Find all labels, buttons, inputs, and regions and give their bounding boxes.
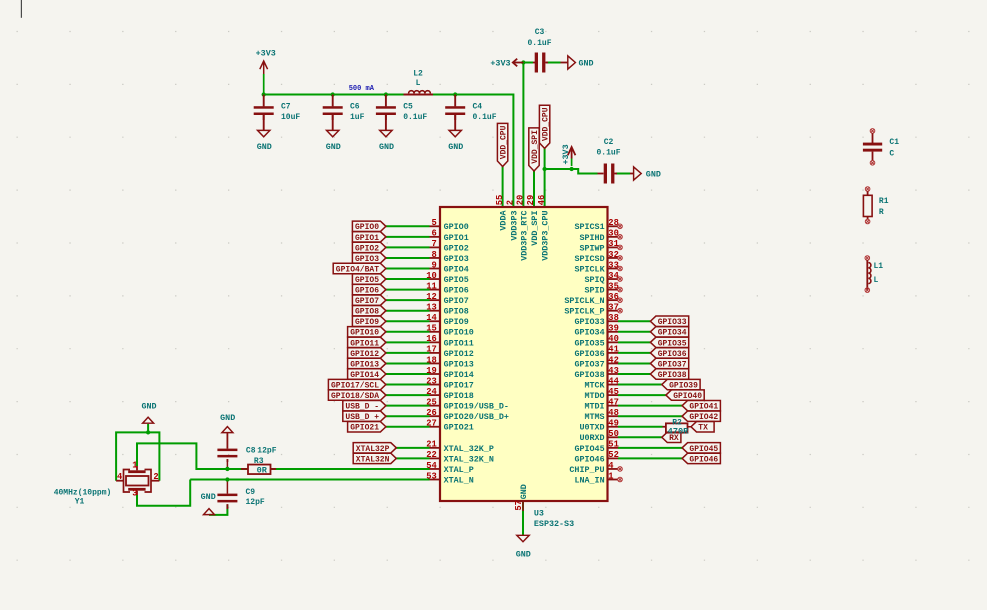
svg-text:9: 9 — [432, 260, 437, 270]
svg-text:57: 57 — [514, 500, 524, 511]
wire right row pin 16 — [618, 394, 666, 396]
capacitor C5 — [385, 95, 387, 107]
svg-text:0.1uF: 0.1uF — [473, 113, 497, 122]
svg-text:6: 6 — [432, 229, 437, 239]
svg-text:0.1uF: 0.1uF — [596, 149, 620, 158]
capacitor C4 — [454, 95, 456, 107]
wire crystal pin1 to XTAL_P — [137, 443, 248, 469]
svg-text:L: L — [416, 79, 421, 88]
svg-text:GPIO9: GPIO9 — [444, 317, 469, 327]
gnd flag at C9 — [204, 509, 215, 515]
svg-text:27: 27 — [426, 419, 437, 429]
wire GPIO12 — [386, 352, 430, 354]
wire GPIO3 — [386, 257, 430, 259]
svg-text:+3V3: +3V3 — [561, 144, 571, 164]
svg-text:GPIO1: GPIO1 — [444, 233, 469, 243]
svg-text:SPID: SPID — [584, 286, 604, 296]
svg-text:GPIO39: GPIO39 — [669, 381, 698, 390]
svg-text:17: 17 — [426, 345, 437, 355]
wire U0TXD to R2 — [618, 426, 663, 428]
svg-text:XTAL_N: XTAL_N — [444, 475, 474, 485]
svg-text:GPIO38: GPIO38 — [658, 371, 687, 380]
svg-text:0R: 0R — [257, 466, 268, 476]
wire GPIO17/SCL — [386, 384, 430, 386]
net label VDD_SPI (pin 29) — [529, 128, 539, 171]
junction C7/rail — [262, 92, 266, 96]
junction C4/rail — [453, 92, 457, 96]
U3 bottom pin 57 GND — [522, 501, 524, 511]
svg-text:46: 46 — [537, 195, 547, 206]
svg-text:C3: C3 — [535, 28, 545, 37]
svg-text:XTAL_32K_N: XTAL_32K_N — [444, 454, 494, 464]
wire +3V3 node to C2 — [572, 169, 598, 174]
wire XTAL_N (crystal to pin 53) — [190, 479, 429, 481]
svg-text:5: 5 — [432, 218, 437, 228]
svg-text:TX: TX — [698, 424, 708, 433]
svg-text:40: 40 — [608, 334, 619, 344]
net label VDD_CPU (pin 46) — [539, 105, 549, 148]
svg-text:U3: U3 — [534, 509, 544, 519]
svg-text:C: C — [889, 149, 894, 158]
net label GPIO37 — [650, 358, 688, 368]
net label GPIO42 — [682, 411, 720, 421]
svg-text:23: 23 — [426, 376, 437, 386]
svg-text:GPIO46: GPIO46 — [574, 454, 604, 464]
svg-text:GPIO7: GPIO7 — [355, 297, 379, 306]
wire GPIO10 — [386, 331, 430, 333]
gnd flag at C2 — [630, 173, 634, 175]
gnd flag at C3 — [561, 62, 568, 64]
wire right row pin 14 — [618, 373, 650, 375]
wire C3 left (+3V3 node) — [523, 62, 533, 64]
wire right row pin 21 — [618, 447, 682, 449]
svg-text:SPICSD: SPICSD — [574, 254, 604, 264]
net label GPIO38 — [650, 369, 688, 379]
svg-text:1uF: 1uF — [350, 113, 365, 122]
svg-text:SPICLK_P: SPICLK_P — [564, 307, 604, 317]
svg-text:GPIO7: GPIO7 — [444, 296, 469, 306]
wire IC GND to flag — [522, 501, 524, 535]
svg-text:C4: C4 — [473, 103, 483, 112]
svg-text:0.1uF: 0.1uF — [527, 39, 551, 48]
svg-text:GPIO10: GPIO10 — [444, 328, 474, 338]
svg-text:42: 42 — [608, 355, 619, 365]
junction crystal GND — [146, 430, 150, 434]
gnd flag above C8 — [226, 433, 228, 449]
svg-text:C7: C7 — [281, 103, 291, 112]
svg-text:12pF: 12pF — [246, 498, 265, 507]
wire crystal GND loop — [116, 432, 159, 480]
net label GPIO18/SDA — [328, 390, 386, 400]
U3 left pins — [430, 226, 441, 479]
svg-text:GPIO3: GPIO3 — [444, 254, 469, 264]
wire GPIO11 — [386, 341, 430, 343]
gnd flag under cap x=455.2 — [454, 115, 456, 131]
svg-text:GND: GND — [448, 142, 463, 152]
resistor R2 470R — [663, 426, 666, 428]
net label GPIO36 — [650, 348, 688, 358]
wire GPIO13 — [386, 362, 430, 364]
wire C9 bottom to GND — [209, 505, 227, 515]
svg-text:10: 10 — [426, 271, 437, 281]
net label GPIO46 — [682, 453, 720, 463]
junction C6/rail — [331, 92, 335, 96]
svg-text:GPIO20/USB_D+: GPIO20/USB_D+ — [444, 412, 509, 422]
wire GPIO6 — [386, 289, 430, 291]
net label GPIO13 — [348, 358, 386, 368]
power +3V3 at C2 — [571, 148, 573, 159]
svg-text:38: 38 — [608, 313, 619, 323]
junction VDD_CPU/C2 branch — [542, 167, 546, 171]
wire VDD3P3_RTC vertical (pin 20 to C3 node) — [522, 63, 524, 208]
capacitor C7 — [263, 95, 265, 107]
svg-text:44: 44 — [608, 376, 619, 386]
svg-text:GPIO3: GPIO3 — [355, 255, 379, 264]
net label GPIO45 — [682, 443, 720, 453]
net label GPIO21 — [348, 422, 386, 432]
svg-text:GPIO2: GPIO2 — [444, 243, 469, 253]
svg-text:VDD_CPU: VDD_CPU — [500, 125, 509, 159]
IC U3 ESP32-S3 — [440, 207, 608, 501]
svg-text:GPIO8: GPIO8 — [444, 307, 469, 317]
svg-text:8: 8 — [432, 250, 437, 260]
U3 right pin numbers — [608, 218, 619, 481]
svg-text:45: 45 — [608, 387, 619, 397]
svg-text:GPIO2: GPIO2 — [355, 244, 379, 253]
svg-text:GPIO6: GPIO6 — [355, 287, 379, 296]
svg-text:GND: GND — [519, 484, 529, 499]
gnd flag crystal top — [143, 417, 154, 423]
wire C9 top node — [226, 480, 228, 494]
resistor R1 (spare) — [865, 187, 870, 192]
wire GPIO21 — [386, 426, 430, 428]
svg-text:29: 29 — [526, 195, 536, 206]
svg-text:16: 16 — [426, 334, 437, 344]
svg-text:GPIO33: GPIO33 — [658, 318, 687, 327]
net label GPIO6 — [352, 284, 386, 294]
svg-text:SPICLK: SPICLK — [574, 264, 605, 274]
svg-text:L1: L1 — [874, 262, 884, 271]
svg-text:GND: GND — [516, 550, 531, 560]
svg-text:GPIO38: GPIO38 — [574, 370, 604, 380]
svg-text:GPIO42: GPIO42 — [689, 413, 718, 422]
net label XTAL32P — [353, 443, 396, 453]
svg-text:L2: L2 — [413, 70, 423, 79]
svg-text:R1: R1 — [879, 197, 889, 206]
wire USB_D - — [386, 405, 430, 407]
svg-text:GPIO17: GPIO17 — [444, 380, 474, 390]
net label GPIO2 — [352, 242, 386, 252]
wire GPIO18/SDA — [386, 394, 430, 396]
svg-text:Y1: Y1 — [75, 497, 85, 506]
wire R2 to TX label — [688, 426, 692, 428]
svg-text:GND: GND — [326, 142, 341, 152]
svg-text:R: R — [879, 208, 884, 217]
svg-text:XTAL32P: XTAL32P — [356, 445, 390, 454]
net label GPIO9 — [352, 316, 386, 326]
svg-text:C6: C6 — [350, 103, 360, 112]
svg-text:40MHz(10ppm): 40MHz(10ppm) — [54, 489, 112, 498]
svg-text:VDD3P3_RTC: VDD3P3_RTC — [519, 211, 529, 261]
junction C5/rail — [384, 92, 388, 96]
svg-text:10uF: 10uF — [281, 113, 300, 122]
net label XTAL32N — [353, 453, 396, 463]
svg-text:VDD_SPI: VDD_SPI — [530, 211, 540, 246]
svg-text:XTAL_P: XTAL_P — [444, 465, 474, 475]
wire C2 to GND flag — [616, 173, 630, 175]
svg-text:GPIO37: GPIO37 — [658, 360, 687, 369]
svg-text:GPIO12: GPIO12 — [444, 349, 474, 359]
svg-text:GND: GND — [257, 142, 272, 152]
svg-text:53: 53 — [426, 471, 437, 481]
svg-text:7: 7 — [432, 239, 437, 249]
svg-text:GPIO1: GPIO1 — [355, 234, 379, 243]
net label GPIO40 — [666, 390, 704, 400]
svg-text:15: 15 — [426, 324, 437, 334]
sheet border remnant — [20, 0, 22, 18]
net label GPIO14 — [348, 369, 386, 379]
svg-text:MTMS: MTMS — [584, 412, 604, 422]
svg-text:SPIQ: SPIQ — [584, 275, 604, 285]
svg-text:1: 1 — [132, 460, 137, 470]
junction C3 node — [521, 60, 525, 64]
svg-text:ESP32-S3: ESP32-S3 — [534, 519, 574, 529]
svg-text:13: 13 — [426, 303, 437, 313]
svg-text:12: 12 — [426, 292, 437, 302]
junction C9/XTAL_N node — [225, 477, 229, 481]
svg-text:L: L — [874, 276, 879, 285]
svg-text:C1: C1 — [889, 138, 899, 147]
gnd flag under cap x=332.7 — [332, 115, 334, 131]
U3 top pins — [0, 0, 1, 1]
U3 right pins — [608, 226, 619, 479]
net label GPIO39 — [662, 379, 700, 389]
svg-text:SPICS1: SPICS1 — [574, 222, 604, 232]
svg-text:2: 2 — [506, 200, 516, 205]
svg-text:GPIO13: GPIO13 — [350, 360, 379, 369]
svg-text:GPIO18: GPIO18 — [444, 391, 474, 401]
svg-text:VDDA: VDDA — [499, 210, 509, 231]
svg-text:GND: GND — [379, 142, 394, 152]
junction +3V3/C2 — [569, 167, 573, 171]
svg-text:0.1uF: 0.1uF — [403, 113, 427, 122]
svg-text:GPIO34: GPIO34 — [574, 328, 604, 338]
svg-text:GND: GND — [220, 413, 235, 423]
net label GPIO10 — [348, 327, 386, 337]
svg-text:GPIO6: GPIO6 — [444, 286, 469, 296]
net label GPIO8 — [352, 306, 386, 316]
U3 unconnected pin markers right — [618, 224, 623, 229]
wire right row pin 18 — [618, 415, 682, 417]
svg-text:GPIO46: GPIO46 — [689, 455, 718, 464]
svg-text:MTDI: MTDI — [584, 402, 604, 412]
gnd flag under cap x=263.7 — [263, 115, 265, 131]
svg-text:3: 3 — [132, 488, 137, 498]
svg-text:U0TXD: U0TXD — [579, 423, 604, 433]
svg-text:GPIO18/SDA: GPIO18/SDA — [331, 392, 379, 401]
svg-text:GPIO0: GPIO0 — [444, 222, 469, 232]
wire GPIO9 — [386, 320, 430, 322]
wire GPIO5 — [386, 278, 430, 280]
gnd flag under IC — [517, 535, 529, 541]
svg-text:GPIO19/USB_D-: GPIO19/USB_D- — [444, 402, 509, 412]
capacitor C6 — [332, 95, 334, 107]
svg-text:26: 26 — [426, 408, 437, 418]
net label USB_D + — [343, 411, 386, 421]
svg-text:2: 2 — [153, 472, 158, 482]
svg-text:GPIO33: GPIO33 — [574, 317, 604, 327]
svg-text:GPIO35: GPIO35 — [658, 339, 687, 348]
wire XTAL32N — [396, 457, 429, 459]
svg-text:MTDO: MTDO — [584, 391, 604, 401]
svg-text:19: 19 — [426, 366, 437, 376]
wire right row pin 10 — [618, 331, 650, 333]
svg-text:GPIO13: GPIO13 — [444, 359, 474, 369]
svg-text:GPIO0: GPIO0 — [355, 223, 379, 232]
svg-text:GPIO5: GPIO5 — [444, 275, 469, 285]
power +3V3 (top left) — [263, 62, 265, 74]
svg-text:GPIO34: GPIO34 — [658, 329, 687, 338]
svg-text:C8: C8 — [246, 446, 256, 455]
svg-text:55: 55 — [495, 195, 505, 206]
svg-text:52: 52 — [608, 450, 619, 460]
svg-text:GPIO8: GPIO8 — [355, 308, 379, 317]
wire right row pin 11 — [618, 341, 650, 343]
wire right row pin 22 — [618, 457, 682, 459]
svg-text:SPICLK_N: SPICLK_N — [564, 296, 604, 306]
svg-text:49: 49 — [608, 419, 619, 429]
svg-text:CHIP_PU: CHIP_PU — [569, 465, 604, 475]
svg-text:GPIO5: GPIO5 — [355, 276, 379, 285]
wire right row pin 17 — [618, 405, 682, 407]
net label TX — [691, 422, 714, 432]
wire XTAL32P — [396, 447, 429, 449]
net label GPIO34 — [650, 327, 688, 337]
svg-text:51: 51 — [608, 440, 619, 450]
svg-text:20: 20 — [516, 195, 526, 206]
wire VDD_CPU label to pin 46 and C2 branch — [544, 148, 546, 207]
svg-text:GPIO4: GPIO4 — [444, 264, 469, 274]
svg-text:GPIO9: GPIO9 — [355, 318, 379, 327]
wire GPIO14 — [386, 373, 430, 375]
svg-text:SPIHD: SPIHD — [579, 233, 604, 243]
svg-text:43: 43 — [608, 366, 619, 376]
U3 left pin names — [444, 222, 509, 485]
svg-text:GPIO17/SCL: GPIO17/SCL — [331, 381, 379, 390]
net label GPIO35 — [650, 337, 688, 347]
wire C3 right to GND flag — [546, 62, 560, 64]
svg-text:GND: GND — [201, 492, 216, 502]
wire GPIO7 — [386, 299, 430, 301]
svg-text:48: 48 — [608, 408, 619, 418]
capacitor C9 — [217, 494, 237, 497]
svg-text:54: 54 — [426, 461, 437, 471]
wire right row pin 9 — [618, 320, 650, 322]
svg-text:VDD_SPI: VDD_SPI — [531, 130, 540, 164]
svg-text:XTAL_32K_P: XTAL_32K_P — [444, 444, 494, 454]
gnd flag under cap x=385.9 — [385, 115, 387, 131]
svg-text:GPIO14: GPIO14 — [350, 371, 379, 380]
net label GPIO33 — [650, 316, 688, 326]
svg-text:GPIO14: GPIO14 — [444, 370, 474, 380]
net label GPIO5 — [352, 274, 386, 284]
net label GPIO12 — [348, 348, 386, 358]
svg-text:GPIO11: GPIO11 — [350, 339, 379, 348]
inductor L1 (spare) — [865, 256, 870, 261]
svg-text:C2: C2 — [604, 138, 614, 147]
svg-text:24: 24 — [426, 387, 437, 397]
wire VDD_SPI label to pin 29 — [533, 171, 535, 207]
svg-text:VDD_CPU: VDD_CPU — [542, 107, 551, 141]
svg-text:GPIO10: GPIO10 — [350, 329, 379, 338]
net label USB_D - — [343, 400, 386, 410]
U3 left pin numbers — [426, 218, 437, 481]
net label RX — [662, 432, 681, 442]
wire C8 bottom to node — [226, 459, 228, 469]
wire GPIO8 — [386, 310, 430, 312]
svg-text:12pF: 12pF — [257, 446, 276, 455]
svg-text:GPIO21: GPIO21 — [444, 423, 474, 433]
svg-text:VDD3P3: VDD3P3 — [509, 211, 519, 241]
svg-text:GND: GND — [646, 169, 661, 179]
wire right row pin 12 — [618, 352, 650, 354]
wire GPIO2 — [386, 246, 430, 248]
wire XTAL_P (R3 to pin 54) — [271, 468, 430, 470]
capacitor C3 — [533, 62, 536, 64]
net label GPIO7 — [352, 295, 386, 305]
inductor L2 — [404, 94, 434, 96]
net label VDD_CPU (pin 55) — [497, 123, 507, 166]
svg-text:50: 50 — [608, 429, 619, 439]
power +3V3 flag at C3 — [513, 62, 524, 64]
svg-text:+3V3: +3V3 — [490, 58, 510, 68]
svg-text:GPIO35: GPIO35 — [574, 338, 604, 348]
svg-text:11: 11 — [426, 281, 437, 291]
svg-text:47: 47 — [608, 397, 619, 407]
wire VDDA to VDD_CPU label — [502, 167, 504, 208]
junction C8/R3 node — [225, 467, 229, 471]
wire GPIO0 — [386, 225, 430, 227]
wire USB_D + — [386, 415, 430, 417]
svg-text:GPIO45: GPIO45 — [574, 444, 604, 454]
svg-text:GPIO40: GPIO40 — [673, 392, 702, 401]
svg-text:4: 4 — [608, 461, 614, 471]
wire right row pin 20 — [618, 436, 662, 438]
svg-text:LNA_IN: LNA_IN — [574, 475, 604, 485]
svg-text:500 mA: 500 mA — [349, 85, 375, 93]
svg-text:C9: C9 — [246, 488, 256, 497]
svg-text:MTCK: MTCK — [584, 380, 605, 390]
net label GPIO0 — [352, 221, 386, 231]
svg-text:21: 21 — [426, 440, 437, 450]
capacitor C2 — [598, 173, 604, 175]
svg-text:GPIO11: GPIO11 — [444, 338, 474, 348]
svg-text:GPIO12: GPIO12 — [350, 350, 379, 359]
svg-text:GPIO37: GPIO37 — [574, 359, 604, 369]
svg-text:14: 14 — [426, 313, 437, 323]
net label GPIO11 — [348, 337, 386, 347]
wire GPIO4/BAT — [386, 268, 430, 270]
svg-text:GPIO45: GPIO45 — [689, 445, 718, 454]
net label GPIO41 — [682, 400, 720, 410]
U3 right pin names — [564, 222, 605, 485]
svg-text:USB_D +: USB_D + — [345, 413, 379, 422]
svg-text:22: 22 — [426, 450, 437, 460]
svg-text:470R: 470R — [668, 426, 689, 436]
wire crystal pin3 to XTAL_N — [137, 480, 190, 506]
svg-text:GPIO41: GPIO41 — [689, 403, 718, 412]
svg-text:1: 1 — [608, 471, 613, 481]
